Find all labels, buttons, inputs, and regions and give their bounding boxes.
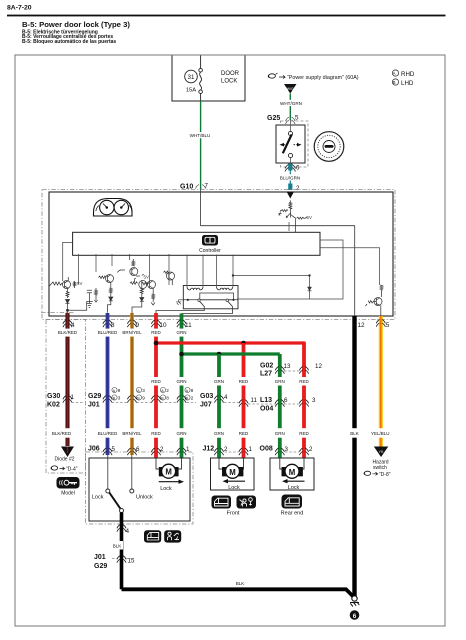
power supply diagram reference bbox=[268, 73, 359, 81]
wire relay to controller right bbox=[237, 240, 343, 299]
svg-text:5: 5 bbox=[295, 115, 299, 122]
arrow into controller from pin2 bbox=[287, 192, 295, 199]
svg-text:5V: 5V bbox=[77, 281, 82, 286]
relay box bbox=[183, 286, 238, 309]
wire into fuse bbox=[200, 56, 202, 69]
fuse element bbox=[199, 68, 203, 72]
svg-text:Controller: Controller bbox=[199, 248, 221, 254]
svg-text:BLU/RED: BLU/RED bbox=[98, 330, 118, 335]
svg-text:RHD: RHD bbox=[401, 71, 415, 78]
svg-text:YB: YB bbox=[379, 450, 384, 454]
svg-text:Lock: Lock bbox=[228, 485, 240, 491]
controller box bbox=[73, 232, 320, 255]
node grn-J12 bbox=[217, 352, 222, 357]
icon glyph door O08 bbox=[285, 498, 299, 506]
svg-text:J12: J12 bbox=[203, 446, 215, 453]
wire BRN/YEL pin 9 bbox=[130, 313, 134, 455]
instrument cluster box bbox=[49, 192, 393, 316]
controller icon bbox=[202, 235, 218, 246]
svg-text:6: 6 bbox=[136, 446, 140, 453]
svg-text:12: 12 bbox=[358, 322, 366, 329]
svg-text:8: 8 bbox=[166, 396, 169, 401]
svg-text:15A: 15A bbox=[186, 88, 196, 94]
J06 motor wires bbox=[156, 458, 182, 469]
connector chevron J01/G29 bottom bbox=[117, 556, 126, 563]
svg-text:G02: G02 bbox=[260, 363, 273, 370]
svg-text:GRN: GRN bbox=[177, 379, 187, 384]
wire red to J12 bbox=[242, 343, 246, 458]
model key icon bbox=[57, 477, 80, 489]
connector chevrons pins row bbox=[63, 320, 72, 327]
svg-text:G30: G30 bbox=[47, 393, 60, 400]
svg-text:Lock: Lock bbox=[288, 485, 300, 491]
svg-text:4: 4 bbox=[224, 394, 228, 401]
svg-text:15: 15 bbox=[128, 558, 135, 565]
svg-text:RED: RED bbox=[239, 379, 249, 384]
svg-text:WHT/GRN: WHT/GRN bbox=[280, 101, 302, 106]
J06 lock assembly box bbox=[89, 458, 190, 521]
svg-text:5V: 5V bbox=[144, 275, 149, 280]
switch lever bbox=[283, 134, 292, 153]
relay output wires bbox=[156, 307, 204, 314]
icon glyph door J06a bbox=[147, 532, 158, 540]
svg-text:BLK: BLK bbox=[236, 581, 245, 586]
relay contact 1 bbox=[198, 299, 200, 301]
ignition switch dashed box bbox=[281, 121, 309, 167]
svg-text:G03: G03 bbox=[200, 393, 213, 400]
svg-text:31: 31 bbox=[188, 74, 195, 81]
svg-text:O08: O08 bbox=[260, 446, 273, 453]
svg-text:GRN: GRN bbox=[177, 431, 187, 436]
circled pins A9 B3 bbox=[112, 387, 194, 400]
ignition switch box bbox=[276, 125, 305, 163]
wire color labels row1 bbox=[58, 329, 188, 337]
svg-text:“Power supply diagram” (60A): “Power supply diagram” (60A) bbox=[287, 75, 359, 81]
svg-text:1: 1 bbox=[186, 446, 190, 453]
transistor circuit block B (pin 8 driver) bbox=[87, 275, 114, 313]
svg-text:5: 5 bbox=[386, 322, 390, 329]
wire RED pin 10 bbox=[154, 313, 158, 458]
svg-text:9: 9 bbox=[118, 388, 121, 393]
svg-text:2: 2 bbox=[309, 446, 313, 453]
connector chevron J06 pin4 bbox=[117, 525, 126, 532]
wire BLU/RED pin 8 bbox=[106, 313, 110, 455]
svg-text:Model: Model bbox=[61, 491, 75, 497]
svg-text:“D-8”: “D-8” bbox=[379, 472, 391, 478]
svg-text:M: M bbox=[229, 468, 236, 477]
wire pin7 into cluster bbox=[201, 190, 355, 317]
arrow diode #2 bbox=[61, 447, 74, 458]
svg-text:LHD: LHD bbox=[401, 80, 414, 87]
svg-text:Front: Front bbox=[227, 511, 240, 517]
wire WHT/GRN bbox=[289, 94, 291, 121]
relay coil 2 bbox=[217, 287, 233, 290]
right driver transistor (pin 5) bbox=[366, 285, 384, 316]
relay coil 1 bbox=[187, 287, 203, 290]
connector chevrons L13/O04 bbox=[239, 400, 248, 407]
connector chevron G03/J07 bbox=[214, 396, 223, 403]
J06 door harness dashed box bbox=[86, 452, 194, 524]
svg-text:WHT/BLU: WHT/BLU bbox=[190, 133, 211, 138]
svg-text:L13: L13 bbox=[260, 397, 272, 404]
J06 common wire BLK bbox=[120, 513, 124, 590]
wire color labels row2 bbox=[151, 377, 309, 386]
svg-text:G29: G29 bbox=[94, 563, 107, 570]
svg-text:DOOR: DOOR bbox=[221, 71, 240, 77]
svg-text:12: 12 bbox=[315, 363, 322, 370]
svg-text:RED: RED bbox=[299, 431, 309, 436]
svg-text:3: 3 bbox=[142, 388, 145, 393]
svg-text:6: 6 bbox=[296, 165, 300, 172]
svg-text:9: 9 bbox=[142, 396, 145, 401]
connector chevrons O08 row bbox=[275, 448, 284, 455]
icon glyph person J12 bbox=[240, 498, 253, 507]
gauge cluster icon bbox=[94, 199, 133, 217]
transistor circuit block D (mid) bbox=[142, 271, 175, 305]
svg-text:M: M bbox=[289, 468, 296, 477]
svg-text:K02: K02 bbox=[47, 402, 60, 409]
svg-text:J06: J06 bbox=[88, 446, 100, 453]
svg-text:M: M bbox=[165, 468, 172, 477]
green horizontal wire bbox=[182, 352, 280, 355]
connector pin 6 bbox=[285, 165, 296, 172]
svg-text:switch: switch bbox=[373, 465, 387, 471]
node red-pin10 bbox=[154, 341, 159, 346]
svg-text:BLK/RED: BLK/RED bbox=[52, 431, 72, 436]
icon glyph door J12 bbox=[215, 498, 229, 506]
svg-text:Diode #2: Diode #2 bbox=[54, 457, 74, 463]
svg-text:2: 2 bbox=[191, 396, 194, 401]
svg-text:5V: 5V bbox=[307, 215, 312, 220]
connector chevrons G29/J01 row bbox=[103, 396, 112, 403]
icons door+person J06 bbox=[144, 530, 161, 542]
svg-text:GRN: GRN bbox=[177, 330, 187, 335]
svg-text:GRN: GRN bbox=[214, 379, 224, 384]
svg-text:“D-4”: “D-4” bbox=[66, 467, 78, 473]
svg-text:8A-7-20: 8A-7-20 bbox=[7, 5, 32, 12]
relay coil 2 feeds bbox=[216, 255, 218, 288]
controller bottom stubs bbox=[78, 254, 80, 284]
svg-text:GRN: GRN bbox=[275, 431, 285, 436]
J06 switch bbox=[107, 455, 109, 489]
node grn-pin11 bbox=[179, 352, 184, 357]
svg-text:J01: J01 bbox=[94, 554, 106, 561]
svg-text:RED: RED bbox=[151, 431, 161, 436]
diode harness dashed box bbox=[46, 320, 86, 474]
ground wire horizontal bbox=[122, 589, 355, 597]
key symbol bbox=[314, 132, 344, 162]
svg-text:RED: RED bbox=[239, 431, 249, 436]
arrow W/G bbox=[284, 84, 297, 94]
svg-text:1: 1 bbox=[249, 446, 253, 453]
svg-text:Rear end: Rear end bbox=[281, 511, 304, 517]
diode mid right bbox=[308, 287, 312, 291]
relay ground bbox=[176, 300, 183, 305]
wire green to J12 bbox=[217, 354, 221, 458]
svg-text:BLK: BLK bbox=[350, 431, 359, 436]
relay coil 1 feeds bbox=[186, 255, 188, 288]
svg-text:B-5: Bloqueo automático de las: B-5: Bloqueo automático de las puertas bbox=[22, 39, 116, 45]
transistor circuit block A (pin 4 driver) bbox=[50, 277, 93, 313]
hazard switch arrow bbox=[374, 447, 389, 458]
wire fuse to box bottom bbox=[200, 94, 202, 102]
header rule bbox=[7, 15, 446, 17]
ground symbol bbox=[352, 596, 357, 601]
connector chevrons G30/K02 row bbox=[63, 396, 72, 403]
fuse 31 15A circle label bbox=[185, 70, 198, 83]
svg-text:5: 5 bbox=[112, 446, 116, 453]
connector chevrons G02/L27 bbox=[275, 367, 284, 374]
transistor circuit block C (pin 9 driver) bbox=[118, 259, 147, 313]
svg-text:G10: G10 bbox=[180, 184, 193, 191]
svg-text:J01: J01 bbox=[88, 402, 100, 409]
wire YEL/BLU pin 5 bbox=[379, 316, 383, 447]
dashed notch segment bbox=[41, 312, 74, 314]
switch contacts bbox=[290, 120, 292, 131]
node red-J12 bbox=[241, 341, 246, 346]
wire red to O08 bbox=[302, 343, 306, 458]
svg-text:2: 2 bbox=[296, 185, 300, 192]
svg-text:2: 2 bbox=[166, 388, 169, 393]
dashed bottom pins row chevrons and labels bbox=[71, 322, 390, 329]
controller dashed box bbox=[42, 190, 395, 320]
svg-text:J07: J07 bbox=[200, 402, 212, 409]
wire BLK pin 12 bbox=[352, 316, 356, 598]
wire color labels row3 bbox=[52, 428, 391, 438]
J06 switch lever bbox=[109, 493, 120, 509]
svg-text:O04: O04 bbox=[260, 406, 273, 413]
svg-text:LOCK: LOCK bbox=[221, 79, 237, 85]
svg-text:BLK/RED: BLK/RED bbox=[58, 330, 78, 335]
svg-text:2: 2 bbox=[160, 446, 164, 453]
svg-text:Lock: Lock bbox=[160, 486, 172, 492]
wire WHT/BLU green bbox=[200, 101, 202, 190]
svg-text:B: B bbox=[392, 80, 395, 85]
pin2 input transistor bbox=[279, 200, 307, 232]
ground number 6 bbox=[350, 610, 360, 620]
svg-text:3: 3 bbox=[118, 396, 121, 401]
fuse box bbox=[172, 56, 245, 102]
svg-text:Lock: Lock bbox=[92, 495, 104, 501]
wire controller to right drivers bbox=[320, 248, 380, 285]
svg-text:RED: RED bbox=[151, 330, 161, 335]
svg-text:L27: L27 bbox=[260, 371, 272, 378]
relay inner box bbox=[200, 293, 234, 300]
svg-text:W/G: W/G bbox=[287, 87, 294, 91]
relay common bus bbox=[183, 299, 238, 301]
svg-text:BLU/RED: BLU/RED bbox=[98, 431, 118, 436]
legend RHD bbox=[392, 70, 398, 85]
svg-text:GRN: GRN bbox=[214, 431, 224, 436]
connector chevrons J12 row bbox=[214, 448, 223, 455]
relay contact 2 bbox=[226, 299, 228, 301]
J06 motor bbox=[159, 467, 179, 476]
dashed row segments G29/J01 bbox=[72, 403, 300, 559]
svg-text:B-5: Power door lock (Type 3): B-5: Power door lock (Type 3) bbox=[22, 20, 130, 29]
svg-text:6: 6 bbox=[353, 613, 357, 620]
svg-text:8: 8 bbox=[191, 388, 194, 393]
wire green to O08 bbox=[278, 354, 282, 458]
svg-text:G29: G29 bbox=[88, 393, 101, 400]
wire GRN pin 11 bbox=[180, 314, 184, 459]
svg-text:RED: RED bbox=[151, 379, 161, 384]
svg-text:BRN/YEL: BRN/YEL bbox=[122, 431, 142, 436]
wire cluster left feed bbox=[63, 242, 73, 281]
svg-text:RED: RED bbox=[299, 379, 309, 384]
wire BLK/RED pin 4 bbox=[66, 313, 70, 446]
svg-text:11: 11 bbox=[251, 397, 258, 404]
svg-text:BRN/YEL: BRN/YEL bbox=[122, 330, 142, 335]
wire BLU/GRN teal bbox=[288, 164, 292, 171]
svg-text:7: 7 bbox=[205, 183, 209, 190]
icon glyph person J06b bbox=[168, 532, 179, 540]
relay sense wire bbox=[233, 276, 310, 288]
switch arrows bbox=[284, 144, 288, 146]
svg-text:Unlock: Unlock bbox=[136, 495, 153, 501]
svg-text:BLU/GRN: BLU/GRN bbox=[280, 176, 300, 181]
J06 lock arrow bbox=[159, 481, 179, 483]
red horizontal wire bbox=[156, 341, 304, 344]
svg-text:3: 3 bbox=[312, 397, 316, 404]
connector chevrons J06 row bbox=[103, 448, 112, 455]
svg-text:13: 13 bbox=[284, 363, 291, 370]
svg-text:G25: G25 bbox=[267, 115, 280, 122]
svg-text:GRN: GRN bbox=[275, 379, 285, 384]
svg-text:BLK: BLK bbox=[113, 544, 122, 549]
svg-text:YEL/BLU: YEL/BLU bbox=[371, 431, 390, 436]
